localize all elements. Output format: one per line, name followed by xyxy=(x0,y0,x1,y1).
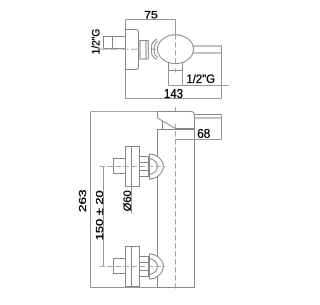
head seam tick xyxy=(162,121,164,130)
upper fitting centerline xyxy=(100,166,166,168)
upper union dome xyxy=(150,154,164,179)
inlet stub top view xyxy=(104,37,126,49)
head bevel xyxy=(158,118,176,129)
bottom outlet stub top view xyxy=(169,56,183,71)
inlet stub divider xyxy=(112,37,114,49)
head seam xyxy=(176,128,195,130)
body ellipse xyxy=(158,35,194,64)
svg-text:150 ± 20: 150 ± 20 xyxy=(94,190,106,240)
body rect xyxy=(158,130,195,288)
wall plate side xyxy=(126,30,139,70)
body centerline top view dashed xyxy=(175,34,177,64)
upper hex facet bottom xyxy=(140,170,149,172)
svg-text:263: 263 xyxy=(77,189,89,212)
lower inlet stub xyxy=(114,259,126,274)
dim 263 line xyxy=(90,112,92,288)
lower escutcheon divider xyxy=(131,247,133,287)
dim 263 bottom extension xyxy=(91,287,158,289)
svg-text:1/2"G: 1/2"G xyxy=(90,29,102,55)
svg-text:68: 68 xyxy=(197,127,210,141)
ring arc inner xyxy=(154,41,158,58)
neck divider xyxy=(145,41,147,60)
neck between plate and body xyxy=(140,41,148,60)
upper escutcheon xyxy=(126,147,140,187)
lower escutcheon xyxy=(126,247,140,287)
lower washer xyxy=(149,254,151,279)
dim 143 line xyxy=(126,98,222,100)
dim 68 line xyxy=(176,139,222,141)
svg-text:Ø60: Ø60 xyxy=(122,190,134,211)
horizontal centerline top view xyxy=(100,48,157,50)
upper hex facet top xyxy=(140,162,149,164)
svg-text:143: 143 xyxy=(164,87,183,101)
upper escutcheon divider xyxy=(131,147,133,187)
outlet center tick xyxy=(175,69,177,73)
upper inlet stub xyxy=(114,159,126,174)
leader line 1/2G bottom xyxy=(169,85,230,87)
dim 150 line xyxy=(103,167,105,267)
outlet extension right xyxy=(182,71,184,86)
svg-text:75: 75 xyxy=(144,9,158,21)
ring arc outer xyxy=(152,39,158,60)
dim 143 right extension xyxy=(221,54,223,99)
lever bottom view xyxy=(190,115,222,119)
lower hex nut xyxy=(140,257,149,277)
lower hex facet bottom xyxy=(140,270,149,272)
dim 75 left extension / wall plate left edge / 143 left extension xyxy=(125,20,127,99)
dim 263 top extension xyxy=(91,111,158,113)
dim 75 line xyxy=(126,19,176,21)
dim 68 extension xyxy=(221,115,223,140)
lever top view xyxy=(190,46,222,53)
head top xyxy=(158,112,195,130)
outlet extension left xyxy=(168,71,170,86)
lower hex facet top xyxy=(140,262,149,264)
body centerline bottom view xyxy=(175,107,177,290)
leader line for O60 xyxy=(131,187,133,214)
body centerline top view upper solid xyxy=(175,20,177,35)
upper union inner arc xyxy=(150,159,158,175)
upper hex nut xyxy=(140,157,149,177)
svg-text:1/2"G: 1/2"G xyxy=(187,72,216,86)
lower union inner arc xyxy=(150,259,158,275)
lower union dome xyxy=(150,254,164,279)
upper washer xyxy=(149,154,151,179)
lower fitting centerline xyxy=(100,266,166,268)
